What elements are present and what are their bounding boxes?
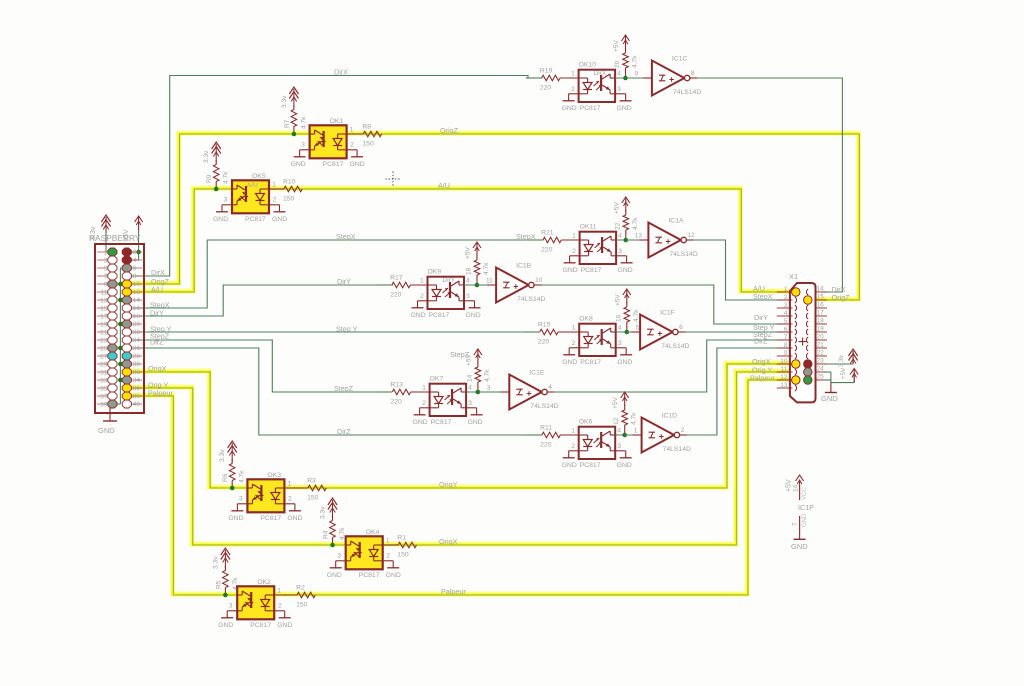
svg-text:3: 3 xyxy=(466,293,470,300)
wire (yellow core) OrigX from R1 to X1 pin11 xyxy=(383,372,793,545)
svg-text:OrigZ: OrigZ xyxy=(832,293,851,302)
svg-text:PC817: PC817 xyxy=(359,572,380,579)
svg-text:GND: GND xyxy=(791,542,808,551)
supply +5V at RASPBERRY pin2 xyxy=(123,216,143,252)
power gate IC1P label xyxy=(798,503,814,512)
svg-text:PC817: PC817 xyxy=(429,312,450,319)
svg-text:StepX: StepX xyxy=(336,232,356,241)
svg-text:GND: GND xyxy=(617,359,632,366)
svg-text:IC1E: IC1E xyxy=(529,370,545,377)
svg-text:A/U: A/U xyxy=(151,285,163,294)
svg-text:20: 20 xyxy=(133,321,141,328)
svg-text:5: 5 xyxy=(784,318,788,325)
svg-text:PC817: PC817 xyxy=(580,105,601,112)
power gate IC1P GND pin xyxy=(791,513,808,551)
svg-text:1: 1 xyxy=(634,428,638,435)
svg-text:4.7k: 4.7k xyxy=(632,217,639,230)
connector X1 name xyxy=(789,272,798,281)
resistor R11 220 xyxy=(540,425,579,449)
svg-text:+5V: +5V xyxy=(465,246,472,259)
svg-text:25: 25 xyxy=(100,346,108,353)
svg-text:3: 3 xyxy=(618,340,622,347)
wire StepX from RPi pin16 to R21 xyxy=(127,240,543,308)
svg-text:2: 2 xyxy=(784,294,788,301)
svg-text:OK4: OK4 xyxy=(366,529,380,536)
wire StepZ from IC1E to X1 pin7 xyxy=(547,340,793,392)
svg-text:8: 8 xyxy=(133,273,137,280)
svg-text:150: 150 xyxy=(283,196,295,203)
svg-text:R10: R10 xyxy=(283,179,296,186)
svg-text:16: 16 xyxy=(817,302,825,309)
optocoupler OK11 PC817 xyxy=(561,224,632,275)
svg-text:1: 1 xyxy=(420,278,424,285)
svg-text:8: 8 xyxy=(691,70,695,77)
svg-text:OrigZ: OrigZ xyxy=(440,126,459,135)
X1 left pin stubs xyxy=(777,292,793,388)
svg-text:DirY: DirY xyxy=(337,277,351,286)
connector RASPBERRY frame xyxy=(95,244,144,413)
svg-text:220: 220 xyxy=(540,85,552,92)
svg-text:7: 7 xyxy=(104,274,108,281)
svg-text:StepX: StepX xyxy=(516,232,536,241)
svg-text:24: 24 xyxy=(133,337,141,344)
svg-text:PC817: PC817 xyxy=(580,462,601,469)
X1 pin contacts xyxy=(795,289,808,391)
RASPBERRY pin pads xyxy=(108,248,132,408)
svg-text:PC817: PC817 xyxy=(431,419,452,426)
wire X1 pin25 to +5V xyxy=(827,373,854,383)
svg-text:9: 9 xyxy=(635,71,639,78)
svg-text:15: 15 xyxy=(100,306,108,313)
svg-text:4: 4 xyxy=(618,233,622,240)
svg-text:GND: GND xyxy=(213,216,228,223)
supply +5V at X1 pin25 xyxy=(840,367,858,383)
svg-text:DirZ: DirZ xyxy=(337,427,351,436)
svg-text:3.3v: 3.3v xyxy=(838,354,845,367)
svg-text:11: 11 xyxy=(781,366,788,373)
svg-text:8: 8 xyxy=(784,342,788,349)
svg-text:22: 22 xyxy=(133,329,141,336)
svg-text:DirZ: DirZ xyxy=(754,337,768,346)
svg-text:R1: R1 xyxy=(397,535,406,542)
wire OK10 pin4 to junction xyxy=(615,77,639,79)
svg-text:GND: GND xyxy=(466,312,481,319)
junction at OK9 pin4 xyxy=(475,283,480,288)
svg-text:R13: R13 xyxy=(390,382,403,389)
svg-text:PC817: PC817 xyxy=(581,267,602,274)
net labels at X1 xyxy=(750,284,850,383)
svg-text:IC1A: IC1A xyxy=(668,218,684,225)
svg-text:38: 38 xyxy=(133,393,141,400)
junction at OK2 pin4 xyxy=(223,593,228,598)
svg-text:Palpeur: Palpeur xyxy=(148,389,173,398)
resistor R8 150 xyxy=(347,124,382,148)
svg-text:R4: R4 xyxy=(323,530,330,539)
svg-text:OK5: OK5 xyxy=(252,173,266,180)
resistor R5 4.7k pull-up with 3.3v supply xyxy=(212,548,239,595)
resistor R10 150 xyxy=(269,179,302,203)
svg-text:3: 3 xyxy=(487,385,491,392)
svg-text:12: 12 xyxy=(780,374,788,381)
wire (yellow core) A/U from RPi pin12 to OK5 xyxy=(127,189,232,292)
svg-text:26: 26 xyxy=(133,345,141,352)
svg-text:3: 3 xyxy=(468,400,472,407)
svg-text:OK6: OK6 xyxy=(579,419,593,426)
svg-text:OK3: OK3 xyxy=(267,472,281,479)
wire DirY from RPi pin18 to R17 xyxy=(127,285,393,316)
svg-text:StepZ: StepZ xyxy=(450,350,470,359)
svg-text:R19: R19 xyxy=(540,68,553,75)
svg-text:R3: R3 xyxy=(307,478,316,485)
wire RASPBERRY pin39 to GND xyxy=(103,402,117,421)
svg-text:74LS14D: 74LS14D xyxy=(669,251,697,258)
wire OK8 pin4 to junction xyxy=(616,331,641,333)
svg-text:2: 2 xyxy=(571,443,575,450)
svg-text:2: 2 xyxy=(571,86,575,93)
svg-text:1: 1 xyxy=(350,127,354,134)
svg-text:3.3v: 3.3v xyxy=(281,95,288,108)
svg-text:GND: GND xyxy=(218,622,233,629)
svg-text:2: 2 xyxy=(681,427,685,434)
inverter IC1E 74LS14D xyxy=(478,370,559,411)
optocoupler OK8 PC817 xyxy=(558,316,632,367)
svg-text:17: 17 xyxy=(817,310,825,317)
svg-text:10: 10 xyxy=(535,277,543,284)
junction at OK3 pin4 xyxy=(230,486,235,491)
svg-text:GND: GND xyxy=(562,359,577,366)
svg-text:3: 3 xyxy=(104,258,108,265)
svg-text:A/U: A/U xyxy=(247,182,258,189)
svg-text:3.3v: 3.3v xyxy=(203,150,210,163)
wire StepY from IC1F to X1 pin6 xyxy=(682,331,793,333)
svg-text:30: 30 xyxy=(133,361,141,368)
svg-text:10: 10 xyxy=(780,358,788,365)
svg-text:1: 1 xyxy=(422,385,426,392)
svg-text:18: 18 xyxy=(817,318,825,325)
svg-text:10: 10 xyxy=(133,281,141,288)
svg-text:74LS14D: 74LS14D xyxy=(661,343,689,350)
RASPBERRY pin numbers xyxy=(100,249,140,409)
svg-text:4.7k: 4.7k xyxy=(484,369,491,382)
wire StepZ from RPi pin24 to R13 xyxy=(127,340,392,392)
svg-text:IC1B: IC1B xyxy=(516,263,532,270)
wire into R21 xyxy=(527,239,543,241)
optocoupler OK4 PC817 xyxy=(327,529,401,579)
svg-text:OK7: OK7 xyxy=(430,376,444,383)
svg-text:R9: R9 xyxy=(206,174,213,183)
svg-text:6: 6 xyxy=(679,324,683,331)
svg-text:GND: GND xyxy=(98,426,115,435)
svg-text:21: 21 xyxy=(817,342,825,349)
svg-text:R11: R11 xyxy=(540,425,552,432)
svg-text:OK2: OK2 xyxy=(257,579,271,586)
svg-text:PC817: PC817 xyxy=(323,161,344,168)
X1 colored pads xyxy=(792,288,812,384)
svg-text:OK10: OK10 xyxy=(579,62,597,69)
svg-text:+5V: +5V xyxy=(840,367,847,379)
junction at OK11 pin4 xyxy=(624,238,629,243)
svg-text:2: 2 xyxy=(278,603,282,610)
svg-text:R6: R6 xyxy=(222,473,229,482)
svg-text:17: 17 xyxy=(100,314,108,321)
inverter IC1C 74LS14D xyxy=(626,56,702,97)
RASPBERRY internal GND bus xyxy=(112,268,126,404)
svg-text:R2: R2 xyxy=(296,585,305,592)
svg-text:R8: R8 xyxy=(362,124,371,131)
wire (yellow) A/U from RPi pin12 to OK5 xyxy=(126,188,231,291)
wire (yellow core) OrigZ from R8 to X1 pin15 xyxy=(347,134,860,300)
svg-text:9: 9 xyxy=(784,350,788,357)
svg-text:IC1D: IC1D xyxy=(662,413,678,420)
svg-text:3: 3 xyxy=(301,142,305,149)
junction at OK4 pin4 xyxy=(330,543,335,548)
resistor R12 4.7k pull-up with +5V supply xyxy=(612,392,638,435)
svg-text:GND: GND xyxy=(272,216,287,223)
svg-text:GND: GND xyxy=(350,161,365,168)
resistor R7 4.7k pull-up with 3.3v supply xyxy=(281,87,308,134)
svg-text:150: 150 xyxy=(296,602,308,609)
svg-text:GND: GND xyxy=(618,267,633,274)
svg-text:4: 4 xyxy=(618,325,622,332)
svg-text:2: 2 xyxy=(288,496,292,503)
svg-text:23: 23 xyxy=(817,358,825,365)
inverter IC1F 74LS14D xyxy=(627,310,690,351)
svg-text:GND: GND xyxy=(386,572,401,579)
svg-text:220: 220 xyxy=(390,292,402,299)
svg-text:GND: GND xyxy=(287,515,302,522)
wire X1 pin23 to 3.3v xyxy=(827,352,853,364)
wire (yellow halo) OrigX from RPi pin32 to OK3 xyxy=(126,371,247,487)
junction at OK5 pin4 xyxy=(214,187,219,192)
svg-text:1: 1 xyxy=(104,250,108,257)
inverter IC1B 74LS14D xyxy=(477,263,546,304)
svg-text:2: 2 xyxy=(420,293,424,300)
svg-text:OK8: OK8 xyxy=(579,316,593,323)
resistor R21 220 xyxy=(541,230,580,254)
optocoupler OK1 PC817 xyxy=(291,118,365,168)
svg-text:GND: GND xyxy=(562,105,577,112)
svg-text:DirY: DirY xyxy=(150,309,164,318)
svg-text:29: 29 xyxy=(100,362,108,369)
svg-text:14: 14 xyxy=(793,484,800,492)
wire X1 pin24 down xyxy=(827,372,831,383)
svg-text:6: 6 xyxy=(133,265,137,272)
wire into R11 xyxy=(526,434,542,436)
svg-text:GND: GND xyxy=(562,462,577,469)
svg-text:13: 13 xyxy=(100,298,108,305)
svg-text:IC1F: IC1F xyxy=(660,310,675,317)
svg-text:4.7k: 4.7k xyxy=(223,171,230,184)
svg-text:OrigX: OrigX xyxy=(439,537,458,546)
svg-text:4: 4 xyxy=(133,257,137,264)
svg-text:IC1P: IC1P xyxy=(798,503,814,512)
svg-text:1: 1 xyxy=(287,481,291,488)
svg-text:37: 37 xyxy=(100,394,108,401)
svg-text:OrigX: OrigX xyxy=(148,364,167,373)
svg-text:14: 14 xyxy=(466,374,473,382)
junction at OK10 pin4 xyxy=(623,76,628,81)
wire (yellow) OrigY from RPi pin36 to OK4 xyxy=(126,387,345,544)
wire DirZ from IC1D to X1 pin8 xyxy=(679,348,793,435)
svg-text:1: 1 xyxy=(572,233,576,240)
svg-text:22: 22 xyxy=(817,350,825,357)
supply 3.3v at X1 pin23 xyxy=(838,349,858,367)
svg-text:4.7k: 4.7k xyxy=(483,262,490,275)
svg-text:2: 2 xyxy=(422,400,426,407)
svg-text:74LS14D: 74LS14D xyxy=(517,296,545,303)
resistor R4 4.7k pull-up with 3.3v supply xyxy=(320,498,347,545)
mouse crosshair cursor xyxy=(386,172,401,187)
svg-text:3: 3 xyxy=(617,86,621,93)
svg-text:3.3v: 3.3v xyxy=(320,506,327,519)
wire DirX from IC1C to X1 pin14 xyxy=(691,78,842,292)
ground GND below RASPBERRY xyxy=(98,426,115,435)
wire into R19 xyxy=(526,77,542,79)
wire OK7 pin4 to junction xyxy=(466,391,492,393)
svg-text:IC1C: IC1C xyxy=(672,56,688,63)
ground GND at X1 xyxy=(821,383,838,403)
wire (yellow) OrigZ from RPi pin10 to OK1 xyxy=(126,133,309,283)
optocoupler OK10 PC817 xyxy=(560,62,632,113)
wire OK6 pin4 to junction xyxy=(615,434,639,436)
svg-text:GND: GND xyxy=(413,419,428,426)
svg-text:27: 27 xyxy=(100,354,108,361)
wire (yellow) OrigZ from R8 to X1 pin15 xyxy=(346,133,859,299)
svg-text:7: 7 xyxy=(792,522,799,526)
svg-text:+5V: +5V xyxy=(612,396,619,409)
wire (yellow) OrigY from R3 to X1 pin10 xyxy=(284,363,793,487)
svg-text:GND: GND xyxy=(821,394,838,403)
wire (yellow) OrigX from R1 to X1 pin11 xyxy=(382,371,792,544)
svg-text:4.7k: 4.7k xyxy=(300,116,307,129)
svg-text:PC817: PC817 xyxy=(260,515,281,522)
svg-text:220: 220 xyxy=(538,339,550,346)
svg-text:4: 4 xyxy=(466,278,470,285)
svg-text:Step Y: Step Y xyxy=(336,325,358,334)
wire DirX from RPi pin8 to R19 xyxy=(127,76,542,277)
svg-text:13: 13 xyxy=(780,382,788,389)
svg-text:1: 1 xyxy=(386,538,390,545)
svg-text:23: 23 xyxy=(100,338,108,345)
inverter IC1A 74LS14D xyxy=(626,218,698,259)
resistor R2 150 xyxy=(274,585,315,609)
svg-text:18: 18 xyxy=(466,267,473,275)
svg-text:150: 150 xyxy=(362,141,374,148)
optocoupler OK7 PC817 xyxy=(411,376,483,427)
svg-text:5: 5 xyxy=(104,266,108,273)
svg-text:7: 7 xyxy=(784,334,788,341)
svg-text:+5V: +5V xyxy=(614,293,621,306)
svg-text:A/U: A/U xyxy=(438,181,450,190)
svg-text:4.7k: 4.7k xyxy=(633,309,640,322)
svg-text:6: 6 xyxy=(784,326,788,333)
svg-text:X1: X1 xyxy=(789,272,798,281)
svg-text:1: 1 xyxy=(277,588,281,595)
svg-text:Palpeur: Palpeur xyxy=(750,374,775,383)
wire (yellow halo) OrigZ from RPi pin10 to OK1 xyxy=(126,133,309,283)
svg-text:16: 16 xyxy=(615,314,622,322)
resistor R9 4.7k pull-up with 3.3v supply xyxy=(203,142,230,189)
svg-text:11: 11 xyxy=(101,290,108,297)
svg-text:16: 16 xyxy=(133,305,141,312)
svg-text:1: 1 xyxy=(571,71,575,78)
svg-text:20: 20 xyxy=(817,334,825,341)
svg-text:3: 3 xyxy=(224,197,228,204)
wire (yellow halo) Palpeur from RPi pin38 to OK2 xyxy=(126,395,236,594)
wire DirZ from RPi pin26 to R11 xyxy=(127,348,542,435)
svg-text:21: 21 xyxy=(100,330,108,337)
svg-text:R7: R7 xyxy=(284,119,291,128)
svg-text:13: 13 xyxy=(635,233,643,240)
svg-text:GND: GND xyxy=(327,572,342,579)
resistor R22 4.7k pull-up with +5V supply xyxy=(613,197,639,240)
X1 center cross xyxy=(799,338,807,346)
svg-text:StepX: StepX xyxy=(753,292,773,301)
wire OK11 pin4 to junction xyxy=(616,239,640,241)
svg-text:GND: GND xyxy=(291,161,306,168)
wire (yellow) Palpeur from R2 to X1 pin12 xyxy=(273,379,792,594)
svg-text:1: 1 xyxy=(272,182,276,189)
svg-text:12: 12 xyxy=(613,417,620,425)
svg-text:OK1: OK1 xyxy=(330,118,344,125)
svg-text:40: 40 xyxy=(133,401,141,408)
resistor R13 220 xyxy=(390,382,429,406)
junction at OK8 pin4 xyxy=(625,330,630,335)
svg-text:36: 36 xyxy=(133,385,141,392)
svg-text:GND: GND xyxy=(617,105,632,112)
connector X1 body xyxy=(790,283,816,402)
power gate IC1P +5V pin xyxy=(786,475,808,500)
svg-text:11: 11 xyxy=(486,278,493,285)
svg-text:1: 1 xyxy=(572,325,576,332)
wire (yellow core) OrigZ from RPi pin10 to OK1 xyxy=(127,134,310,284)
svg-text:GND: GND xyxy=(411,312,426,319)
svg-text:+5V: +5V xyxy=(613,201,620,214)
svg-text:4: 4 xyxy=(784,310,788,317)
svg-text:18: 18 xyxy=(133,313,141,320)
svg-text:DirX: DirX xyxy=(334,68,348,77)
svg-text:33: 33 xyxy=(100,378,108,385)
svg-text:PC817: PC817 xyxy=(245,216,266,223)
svg-text:PC817: PC817 xyxy=(250,622,271,629)
optocoupler OK5 PC817 xyxy=(213,173,287,223)
junction at OK6 pin4 xyxy=(622,433,627,438)
wire StepY from RPi pin22 to R15 xyxy=(127,331,538,333)
svg-text:150: 150 xyxy=(307,495,319,502)
wire OK9 pin4 to junction xyxy=(464,284,491,286)
resistor R15 220 xyxy=(538,322,579,346)
X1 pin numbers 1-13 xyxy=(780,286,788,389)
optocoupler OK6 PC817 xyxy=(560,419,632,470)
resistor R20 4.7k pull-up with +5V supply xyxy=(613,35,639,78)
svg-text:OrigY: OrigY xyxy=(439,480,458,489)
svg-text:3: 3 xyxy=(784,302,788,309)
svg-text:12: 12 xyxy=(133,289,141,296)
svg-text:R21: R21 xyxy=(541,230,554,237)
wire into R15 xyxy=(524,331,540,333)
svg-text:9: 9 xyxy=(104,282,108,289)
svg-text:2: 2 xyxy=(350,142,354,149)
junction at OK7 pin4 xyxy=(476,390,481,395)
inverter IC1D 74LS14D xyxy=(625,413,691,454)
supply 3.3v at RASPBERRY pin1 xyxy=(90,215,112,252)
svg-text:RASPBERRY: RASPBERRY xyxy=(89,233,141,243)
svg-text:4: 4 xyxy=(617,71,621,78)
wire DirY from IC1B to X1 pin5 xyxy=(534,285,793,324)
svg-text:14: 14 xyxy=(817,286,825,293)
svg-text:PC817: PC817 xyxy=(580,359,601,366)
wire (yellow halo) A/U from RPi pin12 to OK5 xyxy=(126,188,231,291)
